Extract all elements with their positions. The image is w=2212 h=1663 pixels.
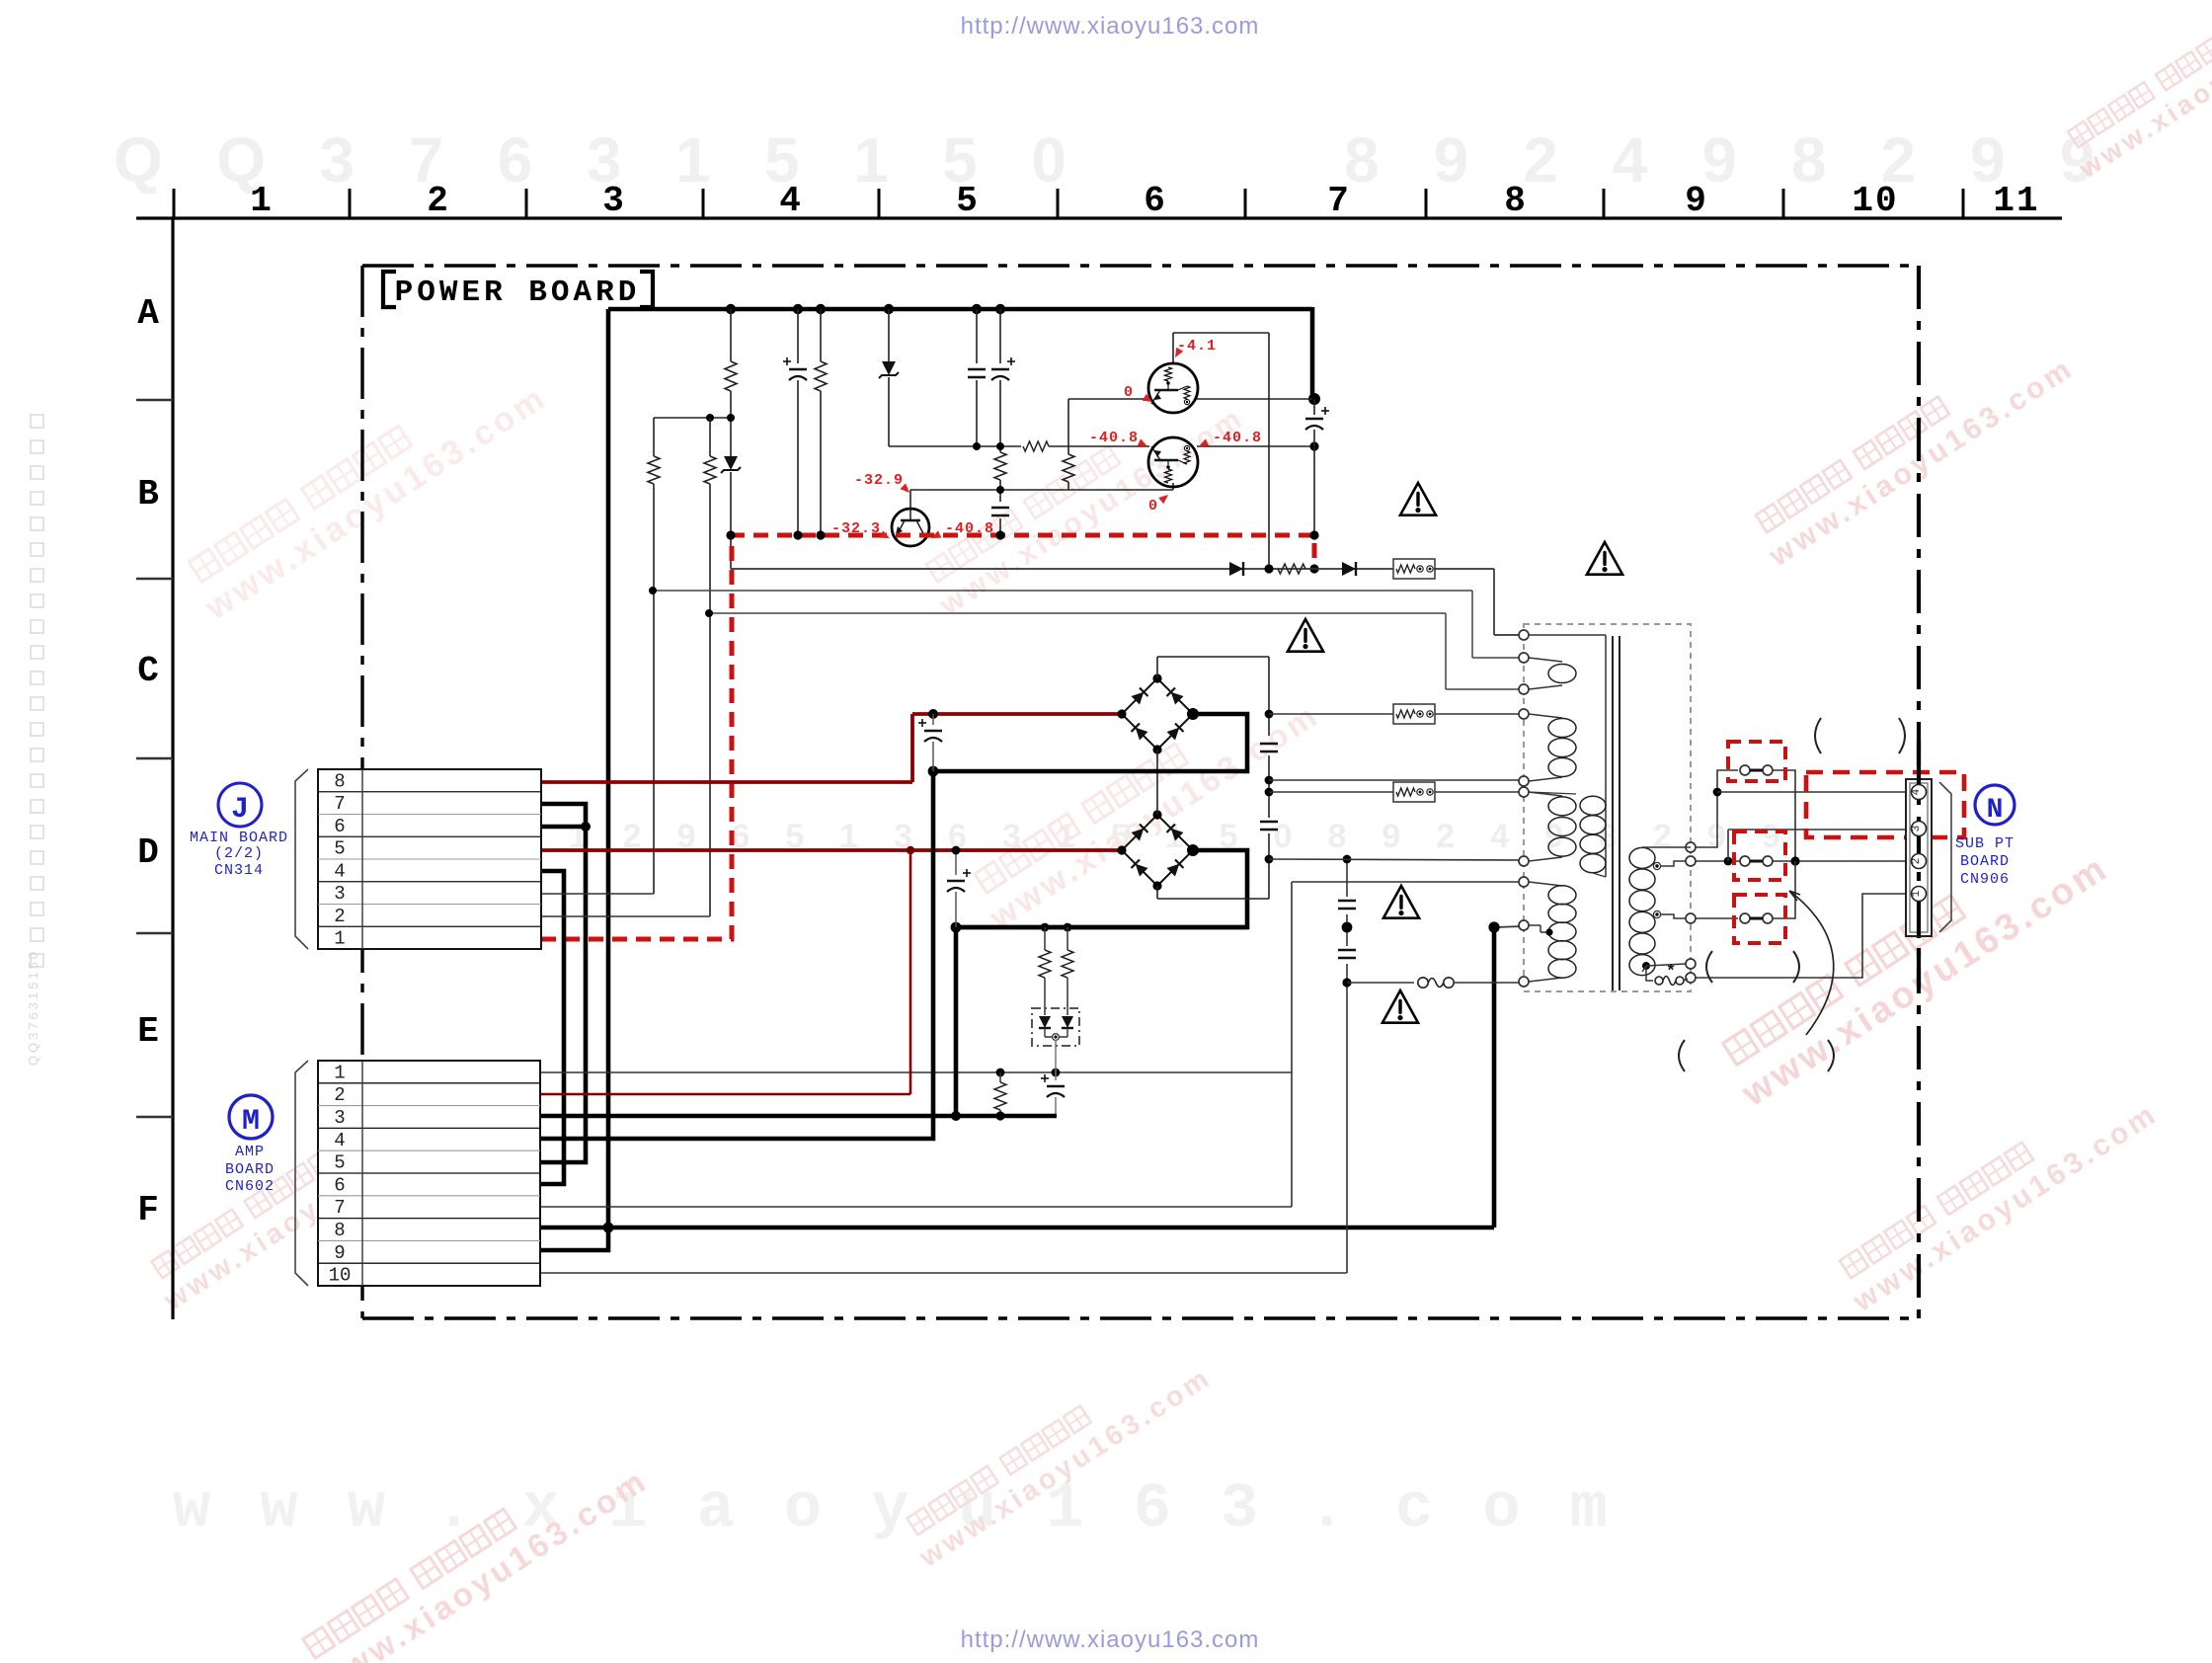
- svg-text:1: 1: [250, 181, 274, 221]
- svg-text:4: 4: [334, 860, 345, 882]
- svg-text:SUB PT: SUB PT: [1955, 835, 2014, 852]
- svg-text:2: 2: [334, 906, 345, 927]
- svg-text:6: 6: [1144, 181, 1167, 221]
- svg-text:POWER BOARD: POWER BOARD: [395, 276, 641, 310]
- svg-text:6: 6: [334, 1174, 345, 1196]
- svg-text:3: 3: [334, 883, 345, 905]
- svg-text:3: 3: [602, 181, 626, 221]
- svg-text:6: 6: [334, 816, 345, 837]
- svg-text:0: 0: [1148, 498, 1158, 515]
- svg-text:5: 5: [334, 1152, 345, 1174]
- svg-text:http://www.xiaoyu163.com: http://www.xiaoyu163.com: [961, 13, 1260, 40]
- svg-text:4: 4: [334, 1130, 345, 1151]
- svg-text:D: D: [137, 832, 159, 873]
- svg-text:AMP: AMP: [235, 1144, 265, 1160]
- svg-text:9: 9: [334, 1242, 345, 1264]
- svg-text:CN314: CN314: [214, 862, 264, 879]
- svg-text:1: 1: [1911, 890, 1923, 897]
- svg-text:J: J: [231, 793, 249, 827]
- svg-text:1: 1: [334, 1062, 345, 1083]
- svg-text:N: N: [1987, 795, 2004, 826]
- svg-text:C: C: [137, 651, 159, 691]
- svg-text:7: 7: [1327, 181, 1351, 221]
- svg-text:2: 2: [334, 1084, 345, 1106]
- svg-text:E: E: [137, 1011, 159, 1052]
- svg-text:-32.3: -32.3: [831, 520, 881, 537]
- svg-text:3: 3: [334, 1107, 345, 1129]
- svg-text:CN906: CN906: [1960, 871, 2010, 888]
- svg-text:5: 5: [334, 838, 345, 860]
- svg-text:F: F: [137, 1190, 159, 1230]
- svg-text:BOARD: BOARD: [225, 1161, 275, 1178]
- svg-text:B: B: [137, 474, 159, 515]
- svg-text:8: 8: [334, 1220, 345, 1241]
- svg-text:2: 2: [1911, 858, 1923, 865]
- svg-text:9: 9: [1685, 181, 1708, 221]
- svg-text:-40.8: -40.8: [945, 520, 994, 537]
- svg-text:www.xiaoyu163.com: www.xiaoyu163.com: [173, 1474, 1657, 1545]
- svg-text:10: 10: [1852, 181, 1898, 221]
- svg-text:MAIN BOARD: MAIN BOARD: [190, 830, 288, 846]
- svg-text:(2/2): (2/2): [214, 845, 264, 862]
- svg-text:CN602: CN602: [225, 1178, 275, 1195]
- svg-text:5: 5: [956, 181, 980, 221]
- svg-text:7: 7: [334, 1197, 345, 1219]
- svg-text:http://www.xiaoyu163.com: http://www.xiaoyu163.com: [961, 1626, 1260, 1653]
- svg-text:-4.1: -4.1: [1177, 338, 1217, 355]
- svg-text:2: 2: [427, 181, 450, 221]
- svg-text:-32.9: -32.9: [854, 472, 904, 489]
- svg-text:3: 3: [1911, 826, 1923, 832]
- svg-text:-40.8: -40.8: [1213, 430, 1262, 446]
- svg-text:QQ376315150: QQ376315150: [26, 949, 40, 1066]
- svg-text:M: M: [242, 1105, 260, 1139]
- svg-text:7: 7: [334, 793, 345, 815]
- svg-text:BOARD: BOARD: [1960, 853, 2010, 870]
- svg-text:8: 8: [1504, 181, 1528, 221]
- svg-text:10: 10: [329, 1265, 352, 1287]
- svg-text:*: *: [1666, 963, 1676, 982]
- svg-text:1: 1: [334, 928, 345, 950]
- svg-text:-40.8: -40.8: [1089, 430, 1139, 446]
- svg-text:8: 8: [334, 770, 345, 792]
- svg-text:0: 0: [1124, 384, 1134, 401]
- svg-text:4: 4: [779, 181, 803, 221]
- svg-text:4: 4: [1911, 788, 1923, 795]
- svg-text:11: 11: [1993, 181, 2039, 221]
- svg-text:A: A: [137, 293, 159, 334]
